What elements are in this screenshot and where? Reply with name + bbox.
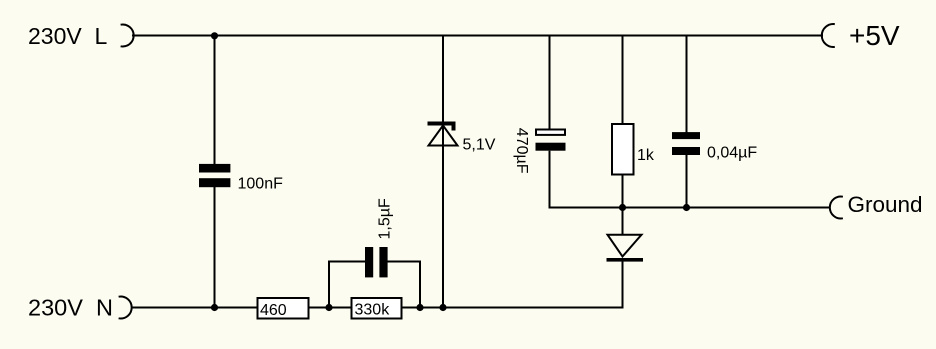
wire C4 top lead [686,36,688,134]
terminal connector Ground [830,197,843,219]
wire between R1 and R2 [309,307,353,309]
svg-text:100nF: 100nF [238,176,284,193]
wire C1 top lead [214,36,216,166]
junction node ground rail at R3/D2 [619,204,626,211]
svg-text:230V L: 230V L [28,23,107,49]
terminal connector 230V L [121,25,134,47]
terminal connector 230V N [119,297,132,319]
junction node C2 right leg [416,304,423,311]
capacitor C1 100nF [199,164,230,187]
wire top rail (+5V net) [132,35,823,37]
wire C1 bottom lead [214,187,216,308]
wire R3 top lead [622,36,624,126]
wire D2 top lead [622,208,624,236]
resistor R3 1k body [612,124,634,175]
wire R3 bottom lead [622,174,624,208]
junction node top rail at C1 [211,32,218,39]
capacitor C3 470uF electrolytic [536,130,566,151]
junction node C2 left leg [325,304,332,311]
svg-text:Ground: Ground [848,192,923,217]
svg-text:+5V: +5V [849,20,900,51]
diode D2 [607,235,644,262]
wire C3 top lead [549,36,551,131]
svg-text:5,1V: 5,1V [463,137,496,154]
wire C2 right leg [387,262,420,308]
svg-text:230V N: 230V N [28,295,113,321]
resistor R2 330k body [352,298,402,319]
wire ground rail [549,207,831,209]
terminal connector +5V [822,24,835,47]
svg-text:470µF: 470µF [513,128,530,174]
junction node ground rail at C4 [683,204,690,211]
zener diode D1 5,1V [428,122,458,146]
capacitor C2 1,5uF [365,247,388,277]
junction node zener leg [439,304,446,311]
wire D2 bottom lead [622,261,624,309]
wire bottom rail left segment [131,307,258,309]
svg-text:460: 460 [260,302,287,319]
svg-text:0,04µF: 0,04µF [707,145,757,162]
svg-text:330k: 330k [355,302,391,319]
junction node bottom rail at C1 [211,304,218,311]
wire C4 bottom lead [686,155,688,208]
wire C3 bottom lead [549,151,551,209]
wire bottom rail right segment [402,307,624,309]
svg-text:1k: 1k [637,147,655,164]
wire C2 left leg [329,262,366,308]
resistor R1 460 body [258,298,309,319]
capacitor C4 0,04uF [672,132,700,155]
wire zener branch [442,36,444,308]
svg-text:1,5µF: 1,5µF [377,198,394,239]
